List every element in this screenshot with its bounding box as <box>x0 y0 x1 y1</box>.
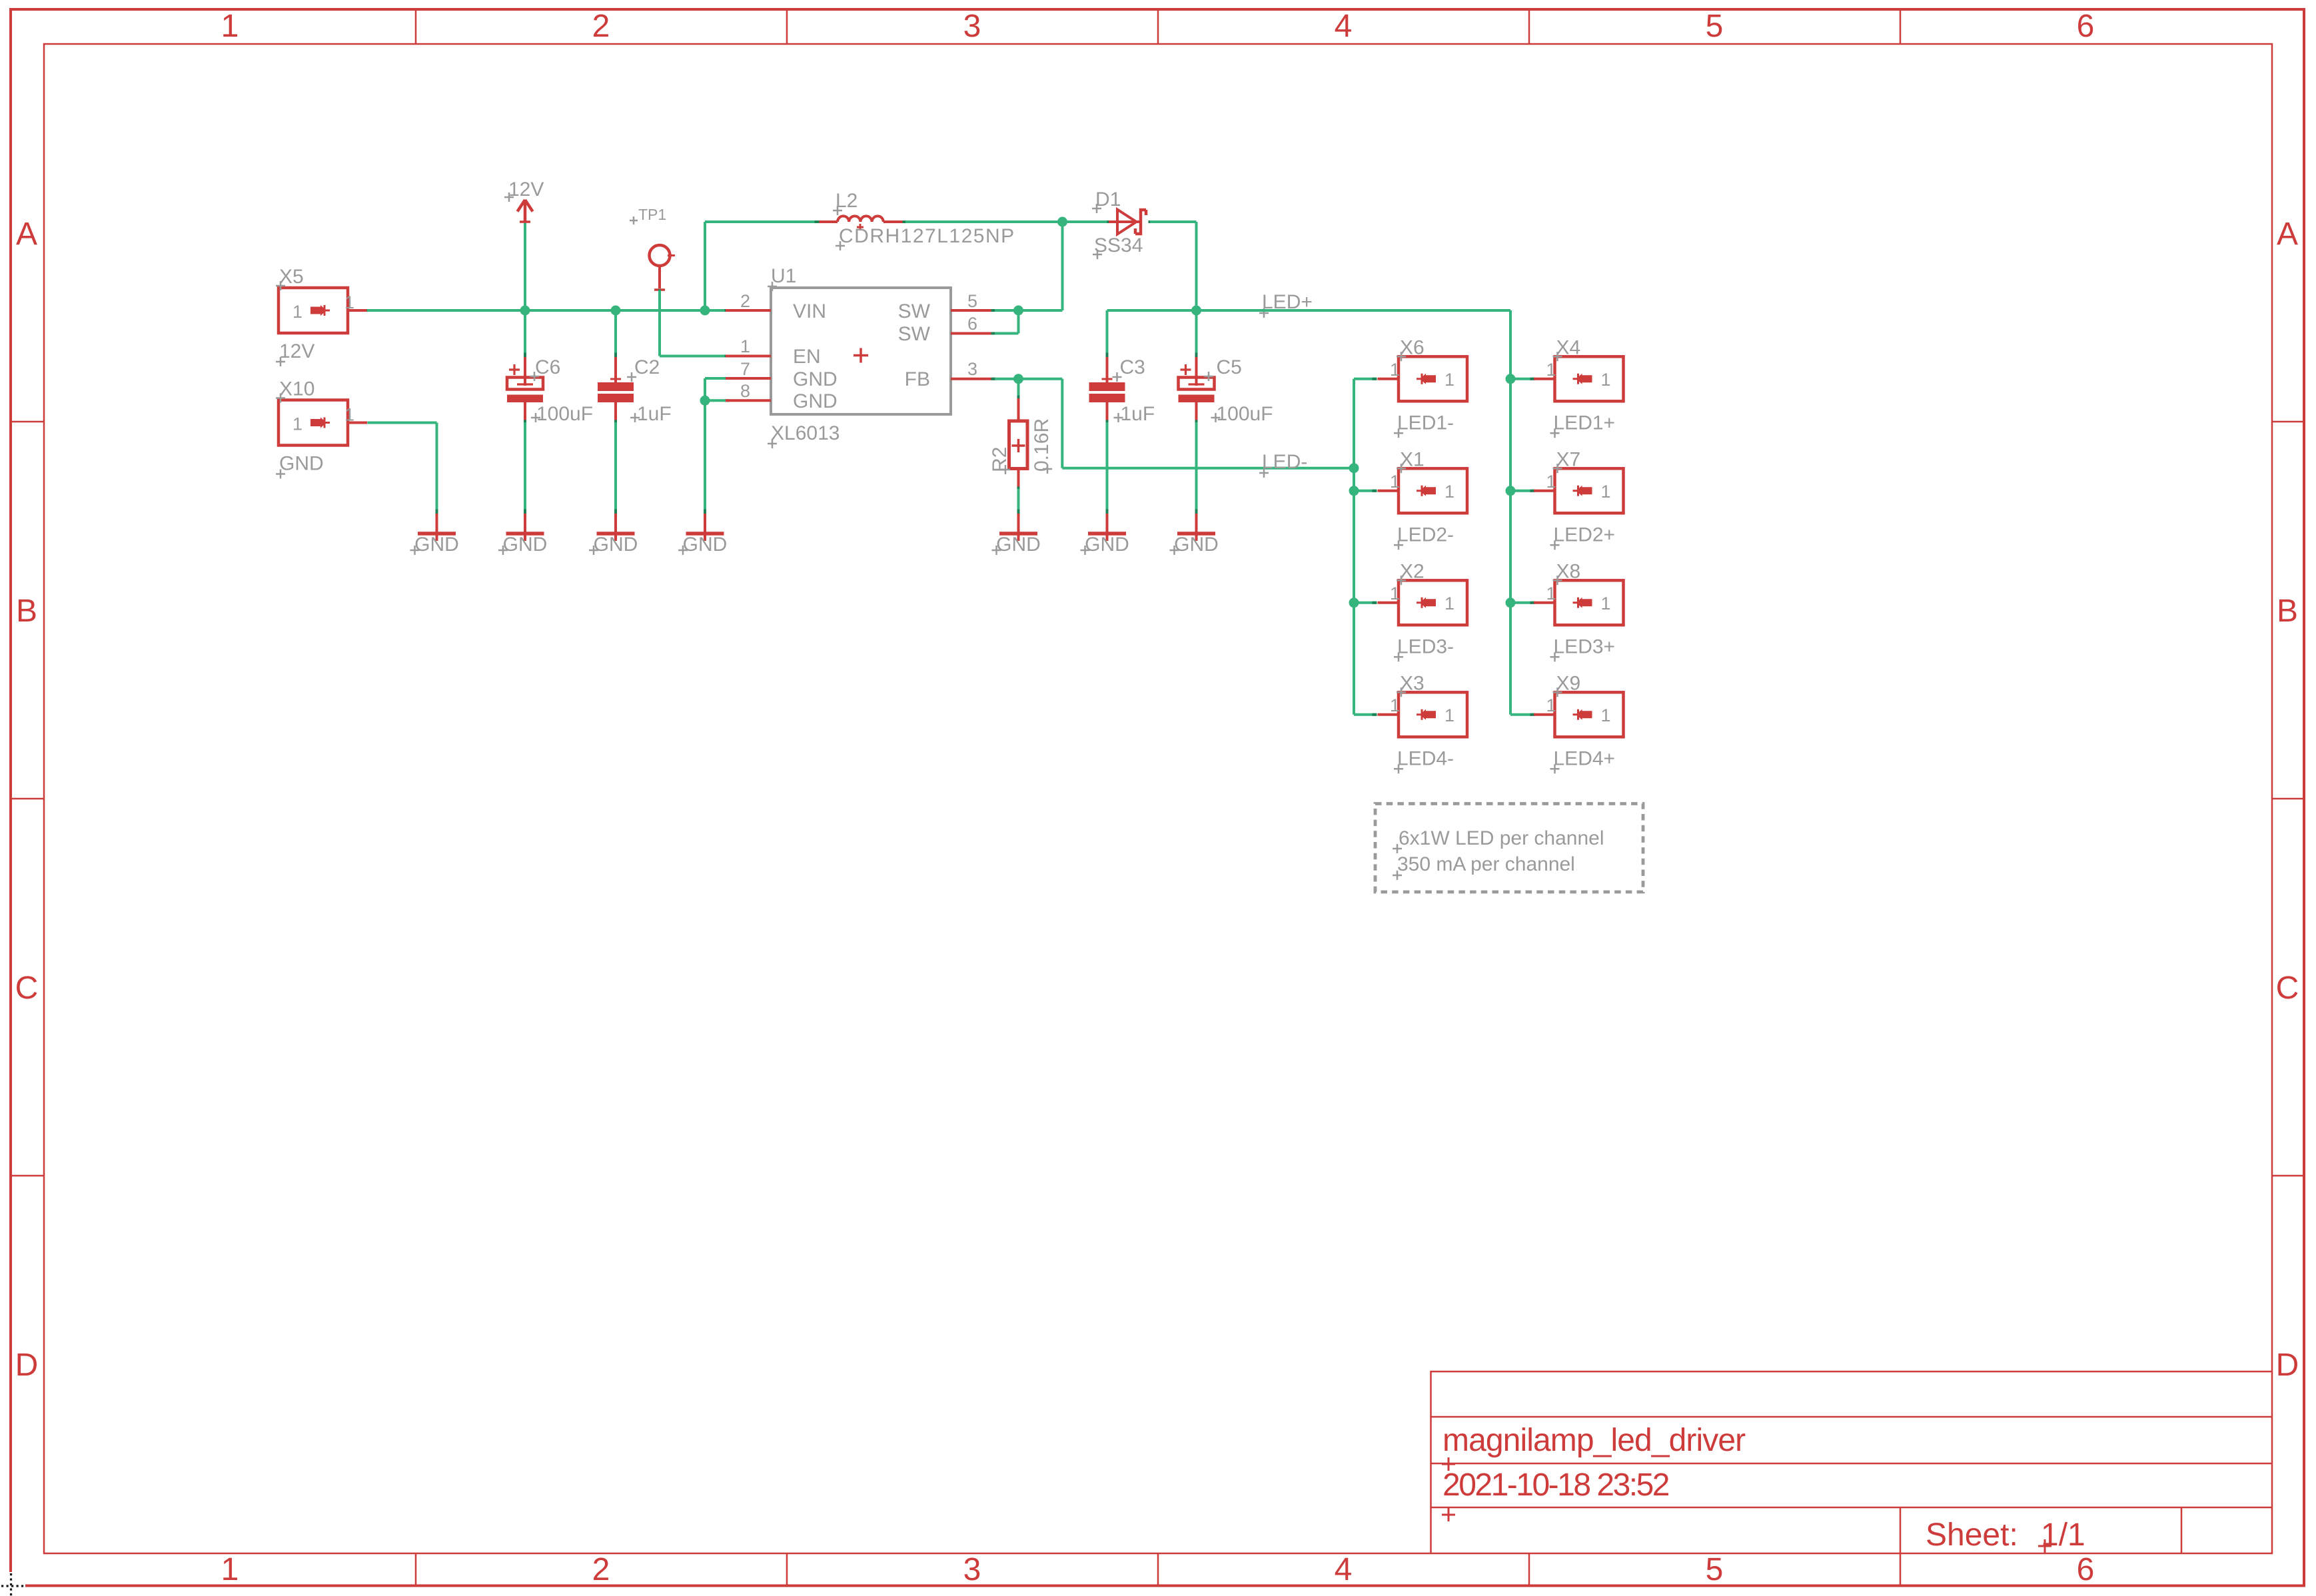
U1 pin 5 line (SW) <box>951 309 995 312</box>
svg-text:1: 1 <box>292 302 302 322</box>
U1 pin 7 line (GND) <box>725 377 730 380</box>
svg-text:1: 1 <box>221 9 239 44</box>
svg-text:5: 5 <box>1706 9 1724 44</box>
svg-text:3: 3 <box>967 359 977 379</box>
svg-text:GND: GND <box>279 453 324 475</box>
title block sheet cell divider right <box>2181 1507 2183 1553</box>
svg-text:1: 1 <box>1546 584 1556 603</box>
svg-text:LED4-: LED4- <box>1397 747 1454 769</box>
svg-text:U1: U1 <box>771 265 796 287</box>
svg-text:100uF: 100uF <box>536 403 593 425</box>
wire: X2 pin branch <box>1354 601 1377 604</box>
ground symbol GND (C5) <box>1195 510 1198 514</box>
svg-text:GND: GND <box>793 390 838 412</box>
svg-text:6: 6 <box>2077 9 2095 44</box>
connector X4 box <box>1555 356 1624 401</box>
svg-text:X9: X9 <box>1556 672 1581 694</box>
svg-text:4: 4 <box>1335 9 1353 44</box>
ground symbol GND (C2) <box>614 510 617 514</box>
svg-text:1: 1 <box>1445 705 1454 725</box>
U1 origin cross <box>854 348 868 363</box>
X3 pin 1 arrow <box>1420 709 1436 720</box>
svg-text:C6: C6 <box>535 356 560 378</box>
wire: C6 bottom lead to ground <box>524 422 526 513</box>
svg-text:3: 3 <box>963 1552 981 1587</box>
svg-text:LED-: LED- <box>1262 451 1307 473</box>
svg-text:1/1: 1/1 <box>2041 1517 2085 1553</box>
svg-text:X5: X5 <box>279 266 304 288</box>
wire: C5 bottom lead to ground <box>1195 422 1198 513</box>
svg-text:SW: SW <box>898 300 931 322</box>
frame column tick 1/2 (top) <box>415 11 417 44</box>
wire: C2 top lead <box>614 310 617 355</box>
svg-text:1: 1 <box>1390 472 1400 492</box>
capacitor C6 (100uF, polarized) <box>524 353 526 358</box>
svg-text:1: 1 <box>1601 705 1611 725</box>
frame row tick (right) <box>2271 798 2304 800</box>
svg-text:A: A <box>16 216 37 252</box>
frame column tick 5/6 (top) <box>1900 11 1902 44</box>
wire: SW net pin5 to riser <box>995 309 1063 312</box>
wire: junction dot SW/L2/D1 <box>1057 217 1067 227</box>
svg-text:SW: SW <box>898 323 931 345</box>
svg-text:3: 3 <box>963 9 981 44</box>
wire: C6 top lead <box>524 310 526 355</box>
svg-text:D1: D1 <box>1095 189 1121 210</box>
wire: junction dot pin8/rail <box>700 396 710 406</box>
svg-text:100uF: 100uF <box>1217 403 1273 425</box>
title block row line 1 <box>1431 1416 2272 1418</box>
wire: junction dot 12V/L2 riser <box>700 306 710 316</box>
capacitor C5 (100uF, polarized) <box>1195 353 1198 358</box>
svg-text:1: 1 <box>1601 370 1611 390</box>
X1 pin 1 arrow <box>1420 486 1436 496</box>
svg-text:1: 1 <box>292 414 302 434</box>
resistor R2 0.16R <box>1017 379 1020 398</box>
connector X3 box <box>1399 692 1467 737</box>
ground symbol GND (C3) <box>1106 510 1109 514</box>
diode D1 SS34 (schottky) <box>1107 220 1112 223</box>
U1 pin 8 line (GND) <box>725 399 730 402</box>
svg-text:X10: X10 <box>279 378 314 400</box>
X7 pin 1 line <box>1534 490 1555 492</box>
X2 pin 1 arrow <box>1420 598 1436 608</box>
capacitor C3 (1uF) <box>1106 353 1109 358</box>
X10 pin 1 arrow <box>310 418 326 428</box>
capacitor C2 (1uF) <box>614 353 617 358</box>
connector X10 box <box>279 400 348 446</box>
svg-text:1: 1 <box>1390 360 1400 380</box>
svg-text:1: 1 <box>1601 594 1611 613</box>
frame column tick 4/5 (bottom) <box>1528 1553 1530 1585</box>
X6 pin 1 arrow <box>1420 374 1436 384</box>
svg-text:CDRH127L125NP: CDRH127L125NP <box>839 225 1015 247</box>
X1 pin 1 line <box>1378 490 1399 492</box>
svg-text:LED1+: LED1+ <box>1554 412 1616 434</box>
frame row tick (left) <box>11 798 44 800</box>
title block sheet cell divider left <box>1900 1507 1902 1553</box>
wire: junction dot output/LED+ <box>1191 306 1201 316</box>
wire: C2 bottom lead to ground <box>614 422 617 513</box>
svg-text:magnilamp_led_driver: magnilamp_led_driver <box>1443 1423 1746 1458</box>
wire: X1 pin branch <box>1354 490 1377 492</box>
frame row tick (right) <box>2271 1175 2304 1177</box>
svg-text:7: 7 <box>740 359 750 379</box>
svg-text:LED3-: LED3- <box>1397 635 1454 657</box>
svg-text:0.16R: 0.16R <box>1031 418 1053 472</box>
X4 pin 1 line <box>1534 378 1555 380</box>
wire: X7 pin branch <box>1510 490 1534 492</box>
X4 pin 1 arrow <box>1576 374 1592 384</box>
svg-text:1: 1 <box>221 1552 239 1587</box>
wire: junction dot LED+ rail / X8 <box>1506 598 1516 607</box>
svg-text:XL6013: XL6013 <box>771 422 840 444</box>
connector X8 box <box>1555 580 1624 625</box>
connector X7 box <box>1555 468 1624 513</box>
X8 pin 1 line <box>1534 601 1555 604</box>
svg-text:6: 6 <box>967 314 977 334</box>
svg-text:1uF: 1uF <box>1121 403 1155 425</box>
wire: D1 cathode to output node <box>1149 220 1153 223</box>
ground symbol GND (R2) <box>1017 510 1020 514</box>
U1 pin 3 line (FB) <box>951 378 995 380</box>
svg-text:A: A <box>2277 216 2298 252</box>
svg-text:5: 5 <box>967 291 977 311</box>
X6 pin 1 line <box>1378 378 1399 380</box>
wire: junction dot LED- rail / X1 <box>1349 486 1359 496</box>
wire: L2 to D1 anode <box>905 220 1109 223</box>
svg-text:C2: C2 <box>634 356 660 378</box>
wire: X3 pin branch <box>1354 713 1377 716</box>
svg-text:X4: X4 <box>1556 336 1581 358</box>
svg-text:GND: GND <box>503 534 548 556</box>
svg-text:1uF: 1uF <box>637 403 672 425</box>
svg-text:R2: R2 <box>989 447 1011 472</box>
X7 pin 1 arrow <box>1576 486 1592 496</box>
svg-text:LED2+: LED2+ <box>1554 524 1616 546</box>
svg-text:GND: GND <box>793 368 838 390</box>
wire: junction dot LED+ rail / X4 <box>1506 374 1516 384</box>
svg-text:1: 1 <box>344 292 354 312</box>
svg-text:X3: X3 <box>1400 672 1425 694</box>
sheet origin marker (dotted cross, bottom-left) <box>1 1585 25 1587</box>
frame column tick 1/2 (bottom) <box>415 1553 417 1585</box>
frame row tick (left) <box>11 1175 44 1177</box>
frame column tick 3/4 (bottom) <box>1157 1553 1159 1585</box>
svg-text:2021-10-18 23:52: 2021-10-18 23:52 <box>1443 1467 1669 1503</box>
svg-text:5: 5 <box>1706 1552 1724 1587</box>
X10 pin 1 line <box>348 422 367 424</box>
wire: LED+ rail to connectors <box>1197 309 1511 312</box>
wire: TP1 to EN pin <box>658 290 661 294</box>
X5 pin 1 arrow <box>310 305 326 316</box>
ground symbol GND (U1) <box>704 510 706 514</box>
note box (dashed) <box>1375 804 1643 893</box>
svg-text:LED4+: LED4+ <box>1554 747 1616 769</box>
svg-text:4: 4 <box>1335 1552 1353 1587</box>
svg-text:X7: X7 <box>1556 448 1581 470</box>
svg-text:GND: GND <box>1085 534 1129 556</box>
svg-text:LED1-: LED1- <box>1397 412 1454 434</box>
frame column tick 2/3 (top) <box>786 11 788 44</box>
svg-text:1: 1 <box>344 405 354 425</box>
wire: FB node <box>995 378 1062 380</box>
wire: riser to L2 <box>704 222 706 310</box>
U1 pin 2 line (VIN) <box>725 309 730 312</box>
svg-text:1: 1 <box>1445 594 1454 613</box>
svg-text:1: 1 <box>740 336 750 356</box>
svg-text:1: 1 <box>1445 482 1454 502</box>
svg-text:VIN: VIN <box>793 300 826 322</box>
wire: X8 pin branch <box>1510 601 1534 604</box>
svg-text:2: 2 <box>592 9 610 44</box>
svg-text:GND: GND <box>414 534 459 556</box>
svg-text:X8: X8 <box>1556 560 1581 582</box>
svg-text:6: 6 <box>2077 1552 2095 1587</box>
connector X2 box <box>1399 580 1467 625</box>
svg-text:X6: X6 <box>1400 336 1425 358</box>
wire: junction dot SW pins <box>1013 306 1023 316</box>
svg-text:C5: C5 <box>1217 356 1242 378</box>
svg-text:2: 2 <box>592 1552 610 1587</box>
wire 12V net: riser to supply arrow <box>524 222 526 310</box>
wire 12V net: X5 pin to VIN <box>367 309 372 312</box>
connector X6 box <box>1399 356 1467 401</box>
X2 pin 1 line <box>1378 601 1399 604</box>
frame row tick (right) <box>2271 421 2304 423</box>
X3 pin 1 line <box>1378 713 1399 716</box>
connector X5 box <box>279 288 348 333</box>
inductor L2 CDRH127L125NP <box>816 220 838 223</box>
X9 pin 1 arrow <box>1576 709 1592 720</box>
U1 pin 6 line (SW) <box>951 332 995 335</box>
frame column tick 3/4 (top) <box>1157 11 1159 44</box>
frame column tick 5/6 (bottom) <box>1900 1553 1902 1585</box>
frame row tick (left) <box>11 421 44 423</box>
svg-text:B: B <box>2277 594 2298 629</box>
wire: LED+ to C3 branch <box>1107 309 1197 312</box>
svg-text:2: 2 <box>740 291 750 311</box>
ground symbol GND (C6) <box>524 510 526 514</box>
wire: LED- rail <box>1353 379 1355 715</box>
wire: SW net pin6 link <box>995 332 1019 335</box>
op-amp U1 XL6013 body <box>771 288 951 414</box>
wire: junction dot FB/R2 <box>1013 374 1023 384</box>
svg-text:SS34: SS34 <box>1094 234 1143 256</box>
test point TP1 <box>650 245 670 266</box>
frame column tick 2/3 (bottom) <box>786 1553 788 1585</box>
C6 polarity plus sign <box>509 364 520 375</box>
svg-text:EN: EN <box>793 346 821 368</box>
svg-text:LED2-: LED2- <box>1397 524 1454 546</box>
svg-text:350 mA per channel: 350 mA per channel <box>1397 853 1575 875</box>
svg-text:GND: GND <box>594 534 638 556</box>
svg-text:GND: GND <box>996 534 1041 556</box>
wire: X9 pin branch <box>1510 713 1534 716</box>
svg-text:L2: L2 <box>836 190 858 212</box>
svg-text:TP1: TP1 <box>638 206 666 223</box>
svg-text:C3: C3 <box>1120 356 1145 378</box>
svg-text:6x1W LED per channel: 6x1W LED per channel <box>1399 827 1604 849</box>
X8 pin 1 arrow <box>1576 598 1592 608</box>
svg-text:8: 8 <box>740 381 750 401</box>
svg-text:GND: GND <box>1174 534 1219 556</box>
svg-text:X2: X2 <box>1400 560 1425 582</box>
svg-text:1: 1 <box>1546 472 1556 492</box>
svg-text:1: 1 <box>1445 370 1454 390</box>
supply symbol 12V arrow <box>518 200 533 222</box>
svg-text:Sheet:: Sheet: <box>1926 1517 2018 1553</box>
svg-text:1: 1 <box>1601 482 1611 502</box>
X9 pin 1 line <box>1534 713 1555 716</box>
wire: junction dot 12V/C2 <box>611 306 621 316</box>
wire: junction dot LED- rail / X2 <box>1349 598 1359 607</box>
wire: GND pins 7/8 rail <box>705 377 726 380</box>
wire: junction dot LED+ rail / X7 <box>1506 486 1516 496</box>
title block outline <box>1431 1372 2272 1553</box>
title block row line 3 <box>1431 1507 2272 1509</box>
svg-text:1: 1 <box>1546 360 1556 380</box>
wire GND net: X10 pin to ground <box>368 422 372 424</box>
wire: X6 pin branch <box>1354 378 1377 380</box>
svg-text:GND: GND <box>683 534 728 556</box>
frame column tick 4/5 (top) <box>1528 11 1530 44</box>
C5 polarity plus sign <box>1181 364 1191 375</box>
ground symbol GND (X10) <box>436 510 438 514</box>
connector X9 box <box>1555 692 1624 737</box>
wire: junction dot LED- entry <box>1349 463 1359 473</box>
svg-text:1: 1 <box>1546 695 1556 715</box>
svg-text:1: 1 <box>1390 695 1400 715</box>
wire: junction dot 12V/C6 riser <box>520 306 530 316</box>
connector X1 box <box>1399 468 1467 513</box>
svg-text:B: B <box>16 594 37 629</box>
U1 pin 1 line (EN) <box>725 355 730 358</box>
svg-text:X1: X1 <box>1400 448 1425 470</box>
title block row line 2 <box>1431 1463 2272 1465</box>
X5 pin 1 line <box>348 309 367 312</box>
svg-text:D: D <box>15 1348 39 1383</box>
svg-text:FB: FB <box>905 368 930 390</box>
svg-text:12V: 12V <box>508 179 544 200</box>
wire: FB to LED- run <box>1061 379 1063 468</box>
svg-text:1: 1 <box>1390 584 1400 603</box>
wire: SW riser to L2 output <box>1061 222 1064 310</box>
svg-text:D: D <box>2276 1348 2299 1383</box>
wire: C3 bottom lead to ground <box>1106 422 1109 513</box>
svg-text:C: C <box>15 971 39 1006</box>
svg-text:LED3+: LED3+ <box>1554 635 1616 657</box>
svg-text:C: C <box>2276 971 2299 1006</box>
wire: X4 pin branch <box>1510 378 1534 380</box>
wire: R2 bottom to ground <box>1017 489 1020 513</box>
svg-text:12V: 12V <box>279 340 314 362</box>
